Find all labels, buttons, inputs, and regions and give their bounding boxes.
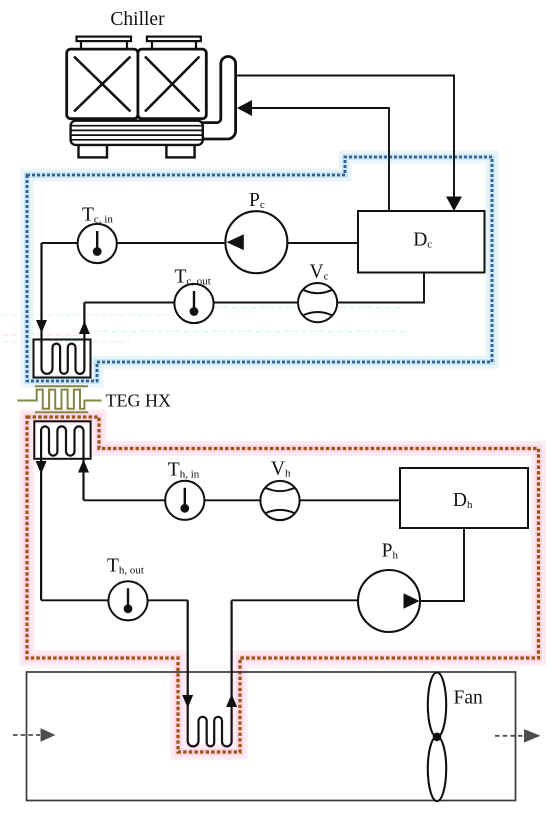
- sensor Th,out: [108, 581, 147, 620]
- svg-text:Vh: Vh: [271, 459, 291, 480]
- TEG module top plate: [35, 385, 88, 387]
- arrow down out of hot HX: [36, 461, 47, 474]
- label Vc: [310, 262, 329, 283]
- cold loop boundary (blue dashed): [27, 157, 492, 381]
- air inlet arrow: [13, 728, 56, 741]
- chiller right foot: [166, 145, 194, 158]
- fan: [428, 673, 446, 802]
- hot loop boundary glow: [27, 417, 539, 752]
- arrow down into cold HX: [36, 320, 47, 333]
- TEG module bottom plate: [35, 411, 88, 413]
- wire + coil cold HX: [42, 243, 85, 374]
- wire hot return row (HX to Th,out): [41, 599, 188, 601]
- label Ph: [382, 541, 399, 562]
- label Chiller: [110, 9, 165, 30]
- valve Vc: [298, 283, 337, 322]
- svg-text:TEG HX: TEG HX: [106, 391, 172, 411]
- valve Vh: [260, 481, 299, 520]
- wire duct coil to Ph: [232, 599, 389, 601]
- chiller pipe: [202, 56, 236, 139]
- ghost artifact line cyan 2: [2, 314, 205, 316]
- svg-text:Pc: Pc: [249, 190, 265, 211]
- arrow into chiller pipe: [237, 100, 252, 116]
- sensor Th,in: [165, 481, 204, 520]
- pump Ph: [358, 570, 420, 632]
- chiller base with fins: [71, 121, 203, 145]
- wire chiller return (Dc to pipe): [252, 108, 390, 211]
- wire chiller supply (pipe to Dc): [236, 76, 454, 198]
- label Tc,out: [175, 267, 211, 288]
- sensor Tc,out: [174, 284, 213, 323]
- sensor Tc,in: [78, 224, 117, 263]
- data logger Dh: [400, 468, 528, 528]
- data logger Dc: [358, 211, 485, 273]
- label Th,in: [168, 459, 200, 480]
- wire + coil duct heater: [188, 600, 232, 746]
- arrow up out of cold HX: [79, 321, 90, 334]
- cold loop boundary glow: [27, 157, 492, 381]
- label Th,out: [107, 556, 144, 577]
- arrow down into duct coil: [182, 695, 193, 708]
- svg-text:Fan: Fan: [454, 687, 484, 708]
- wire hot supply row (Dh to Th,in to HX): [84, 499, 401, 501]
- chiller left fan cap: [77, 37, 132, 50]
- arrow into Dc: [446, 197, 462, 212]
- ghost artifact line pink: [2, 334, 85, 336]
- ghost artifact line cyan 1: [205, 307, 400, 309]
- svg-text:Tc, in: Tc, in: [82, 204, 113, 225]
- svg-text:Ph: Ph: [382, 541, 399, 562]
- svg-text:Th, out: Th, out: [107, 556, 144, 577]
- chiller right body box with X: [138, 49, 206, 119]
- label Pc: [249, 190, 265, 211]
- wire Ph to Dh: [420, 528, 464, 601]
- svg-text:Tc, out: Tc, out: [175, 267, 211, 288]
- chiller left foot: [79, 145, 108, 158]
- label Tc,in: [82, 204, 113, 225]
- wire + coil hot HX: [41, 426, 83, 600]
- ghost artifact line cyan 3: [85, 331, 410, 333]
- wire cold supply row (Dc to Tc,in): [42, 242, 359, 244]
- chiller right fan cap: [147, 37, 201, 50]
- label Vh: [271, 459, 291, 480]
- svg-text:Th, in: Th, in: [168, 459, 200, 480]
- svg-text:Vc: Vc: [310, 262, 329, 283]
- TEG module square wave: [17, 390, 101, 409]
- air outlet arrow: [495, 729, 541, 742]
- heat exchanger box hot: [34, 421, 90, 459]
- svg-text:Chiller: Chiller: [110, 9, 165, 30]
- duct enclosure: [27, 672, 516, 801]
- hot loop boundary (orange dashed): [27, 417, 539, 752]
- label TEG HX: [106, 391, 172, 411]
- label Fan: [454, 687, 484, 708]
- heat exchanger box cold: [34, 340, 91, 378]
- arrow up into hot HX: [78, 460, 89, 473]
- ghost artifact line cyan 4: [2, 341, 130, 343]
- chiller left body box with X: [67, 49, 138, 119]
- arrow up out of duct coil: [226, 694, 237, 707]
- pump Pc: [225, 211, 287, 273]
- wire cold return row (HX to Vc to Dc): [84, 273, 424, 303]
